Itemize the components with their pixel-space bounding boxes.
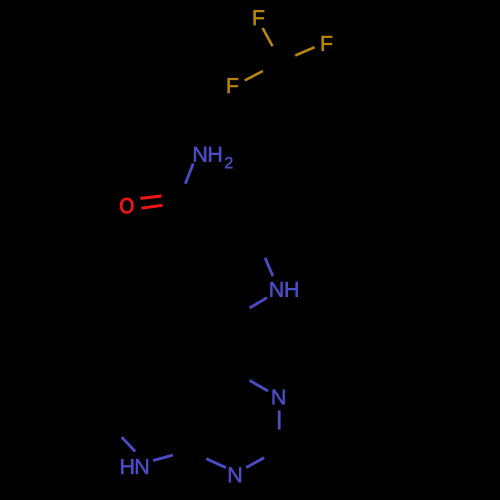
bond C-F2 (gold half) [295,47,314,55]
bond N-C amide (blue half) [185,164,193,184]
double bond C=O upper line (red half) [140,196,161,198]
bond N7-C7a (blue half) [153,455,173,460]
bond C6-N7 (blue half) [122,437,136,451]
bond N1-C2 (blue half, vertical) [278,410,281,429]
amide NH2 label [194,147,206,162]
pyrimidine N3 label [229,467,241,482]
bond C7a-N3 (blue half) [206,459,226,468]
bond N3-C2 (blue half) [246,458,264,468]
bond C4-N1 (blue half) [250,380,269,391]
pyrimidine N1 label [273,390,285,405]
fluorine F3 (left of CF3) [228,78,239,93]
oxygen O (amide) [120,198,133,213]
bond C2p-N pyrrole (blue half, upper) [265,258,273,276]
fluorine F2 (right of CF3) [322,36,333,51]
pyrrole NH label [271,282,283,297]
bond N-C5p pyrrole (blue half, lower left) [250,298,267,308]
fluorine F1 (top of CF3) [254,10,265,25]
bond C-F3 (gold half) [245,71,263,80]
double bond C=O lower line (red half) [142,205,163,208]
pyrrolopyrimidine HN label (N7-H) [121,459,133,474]
bond C-F1 (gold half) [263,28,273,46]
